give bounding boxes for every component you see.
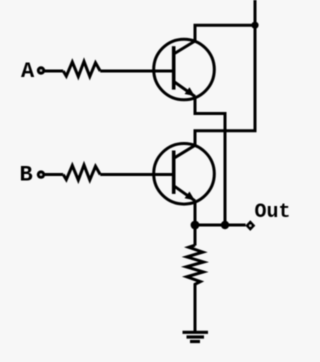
svg-text:B: B [20,163,33,188]
svg-text:Out: Out [255,201,291,224]
svg-text:A: A [21,59,35,84]
